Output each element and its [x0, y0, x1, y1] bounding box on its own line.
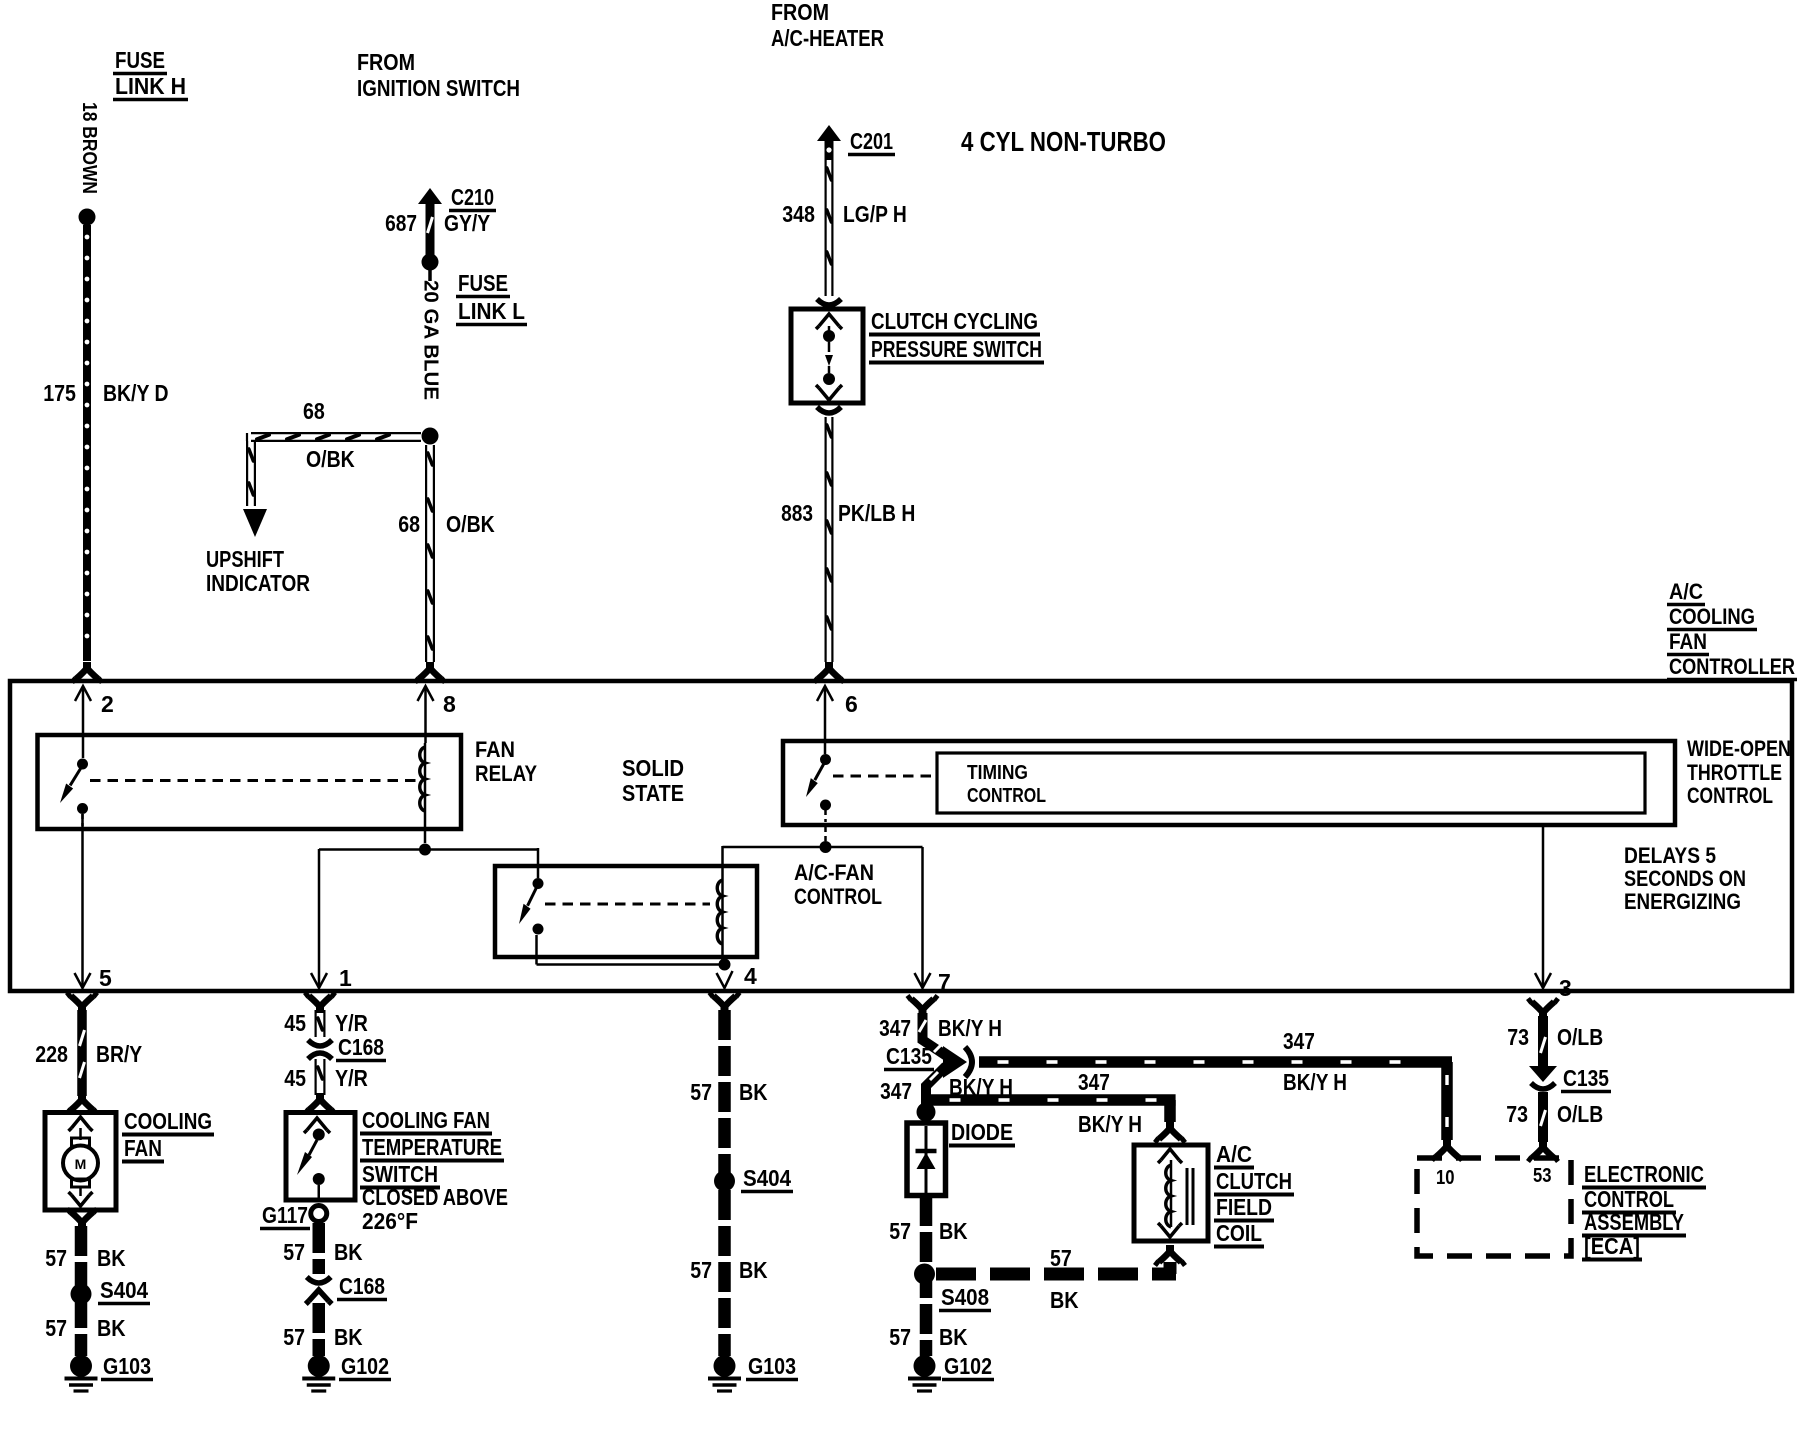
svg-text:FAN: FAN	[1669, 629, 1707, 654]
svg-text:TIMING: TIMING	[967, 762, 1028, 784]
label 57 BK temp switch upper	[283, 1239, 363, 1265]
label 883 PK/LB H	[781, 500, 915, 526]
svg-text:A/C: A/C	[1669, 579, 1703, 604]
label 57 BK (coil ground run)	[1050, 1245, 1079, 1313]
wire 228 BR/Y	[67, 1010, 97, 1114]
wire 57 BK diode to ground	[920, 1196, 933, 1356]
svg-text:SECONDS ON: SECONDS ON	[1624, 866, 1746, 891]
label 348 LG/P H	[782, 201, 907, 227]
a/c fan relay switch	[519, 878, 544, 935]
svg-text:53: 53	[1533, 1165, 1552, 1187]
svg-text:6: 6	[845, 691, 858, 717]
connector below cooling fan	[67, 1209, 97, 1230]
a/c fan control relay box	[495, 866, 757, 957]
svg-text:C135: C135	[1563, 1065, 1609, 1091]
svg-text:45: 45	[284, 1010, 306, 1036]
fan relay box	[38, 735, 462, 829]
svg-text:INDICATOR: INDICATOR	[206, 570, 310, 596]
connector C168 lower	[306, 1273, 387, 1304]
label 73 O/LB lower	[1506, 1101, 1603, 1127]
svg-text:57: 57	[1050, 1245, 1072, 1271]
label DIODE	[949, 1119, 1015, 1146]
svg-text:BK: BK	[97, 1315, 126, 1341]
pin 8	[418, 686, 457, 743]
svg-text:COOLING: COOLING	[124, 1108, 212, 1134]
a/c fan relay coil	[717, 864, 722, 962]
svg-text:BK: BK	[334, 1239, 363, 1265]
svg-text:73: 73	[1507, 1024, 1529, 1050]
svg-text:347: 347	[880, 1078, 912, 1104]
svg-text:LINK H: LINK H	[115, 73, 186, 99]
pin 4	[717, 963, 758, 989]
svg-text:PK/LB H: PK/LB H	[838, 500, 915, 526]
svg-text:BK: BK	[739, 1257, 768, 1283]
svg-text:687: 687	[385, 210, 417, 236]
label SOLID STATE	[622, 755, 684, 806]
svg-text:20 GA BLUE: 20 GA BLUE	[420, 280, 442, 400]
label COOLING FAN TEMPERATURE SWITCH CLOSED ABOVE 226°F	[360, 1107, 508, 1234]
label WIDE-OPEN THROTTLE CONTROL	[1687, 736, 1791, 808]
cooling fan temperature switch box	[286, 1113, 355, 1201]
svg-text:S404: S404	[100, 1277, 148, 1303]
svg-text:A/C-HEATER: A/C-HEATER	[771, 25, 884, 51]
connector pin 7 output	[908, 996, 938, 1017]
label 347 BK/Y H (coil run)	[1078, 1069, 1142, 1137]
svg-text:68: 68	[303, 398, 325, 424]
pin 5	[75, 814, 113, 991]
label CLUTCH CYCLING PRESSURE SWITCH	[869, 308, 1044, 363]
timing control box	[937, 753, 1645, 813]
ground G102 (temp switch)	[302, 1353, 391, 1391]
svg-text:57: 57	[690, 1079, 712, 1105]
label 45 Y/R lower	[284, 1065, 368, 1091]
svg-text:FROM: FROM	[357, 49, 415, 75]
svg-text:O/LB: O/LB	[1557, 1101, 1603, 1127]
svg-text:883: 883	[781, 500, 813, 526]
svg-text:C168: C168	[339, 1273, 385, 1299]
label 687 GY/Y	[385, 210, 490, 236]
label A/C-FAN CONTROL	[794, 860, 882, 909]
a/c clutch field coil	[1158, 1149, 1193, 1237]
pin 53 label	[1533, 1165, 1552, 1187]
svg-text:UPSHIFT: UPSHIFT	[206, 546, 284, 572]
wire 57 BK to clutch field coil	[936, 1245, 1185, 1274]
svg-text:BR/Y: BR/Y	[96, 1041, 142, 1067]
svg-text:8: 8	[443, 691, 456, 717]
pin 6	[817, 686, 858, 754]
title 4 CYL NON-TURBO	[961, 126, 1166, 157]
label A/C COOLING FAN CONTROLLER	[1667, 579, 1797, 680]
svg-text:175: 175	[43, 380, 76, 406]
label A/C CLUTCH FIELD COIL	[1214, 1141, 1294, 1247]
label 45 Y/R upper	[284, 1010, 368, 1036]
pressure switch contacts	[816, 314, 842, 400]
connector C168 upper	[308, 1034, 386, 1061]
label 175 BK/Y D	[43, 380, 168, 406]
svg-text:FROM: FROM	[771, 0, 829, 25]
dashed wire wot switch to node	[824, 827, 827, 843]
svg-text:228: 228	[35, 1041, 68, 1067]
svg-text:CLUTCH CYCLING: CLUTCH CYCLING	[871, 308, 1038, 334]
svg-text:THROTTLE: THROTTLE	[1687, 760, 1782, 785]
junction dot node 68	[422, 428, 439, 445]
wire coil junction to pin 1 and a/c-fan switch	[319, 848, 538, 878]
svg-text:C168: C168	[338, 1034, 384, 1060]
svg-text:BK: BK	[939, 1324, 968, 1350]
temperature switch contacts	[297, 1118, 330, 1200]
svg-text:BK: BK	[334, 1324, 363, 1350]
svg-text:DELAYS 5: DELAYS 5	[1624, 843, 1716, 868]
wire 57 BK cooling fan ground leg	[75, 1226, 88, 1356]
svg-text:57: 57	[45, 1315, 67, 1341]
svg-text:SOLID: SOLID	[622, 755, 684, 781]
svg-text:G103: G103	[103, 1353, 151, 1379]
svg-text:COIL: COIL	[1216, 1220, 1262, 1246]
label 57 BK pin4 upper	[690, 1079, 768, 1105]
cooling fan motor	[63, 1117, 98, 1206]
svg-text:BK/Y H: BK/Y H	[1078, 1111, 1142, 1137]
svg-text:Y/R: Y/R	[335, 1010, 368, 1036]
junction dot diode node	[917, 1103, 936, 1122]
wire 57 BK temp switch upper	[313, 1223, 326, 1274]
wire 347 BK/Y H to clutch field coil	[931, 1100, 1185, 1143]
svg-text:ELECTRONIC: ELECTRONIC	[1584, 1161, 1704, 1187]
svg-text:10: 10	[1436, 1167, 1455, 1189]
junction dot pin 4 node	[719, 959, 731, 971]
wire 68 O/BK horizontal to upshift indicator	[247, 433, 421, 506]
pin 2	[75, 686, 114, 758]
fan relay actuating dashed link	[90, 779, 417, 782]
ground G103	[65, 1353, 154, 1391]
svg-text:LINK L: LINK L	[458, 298, 525, 324]
wot relay switch	[806, 754, 831, 822]
junction dot fan relay coil to pin 1	[419, 844, 431, 856]
wire 175 BK/Y D (fuse link H)	[72, 225, 102, 683]
svg-text:BK: BK	[97, 1245, 126, 1271]
connector pin 1 output	[305, 993, 335, 1014]
label FUSE LINK H	[113, 47, 188, 100]
svg-text:1: 1	[339, 965, 352, 991]
label FROM A/C-HEATER	[771, 0, 884, 51]
connector C210 arrow	[418, 188, 442, 255]
connector C201 arrow	[817, 125, 841, 160]
wire 73 O/LB lower	[1528, 1092, 1558, 1162]
label 68 O/BK (vertical run)	[398, 511, 495, 537]
svg-text:G102: G102	[944, 1353, 992, 1379]
fan relay switch	[60, 759, 88, 827]
diode box	[907, 1123, 946, 1196]
wire 57 BK temp switch lower	[313, 1303, 326, 1356]
junction dot wot output node	[820, 841, 832, 853]
svg-text:FUSE: FUSE	[458, 270, 508, 296]
ground G102 (diode leg)	[908, 1353, 994, 1391]
label 347 BK/Y H (lower diagonal)	[880, 1074, 1013, 1104]
svg-text:57: 57	[283, 1324, 305, 1350]
svg-text:O/BK: O/BK	[446, 511, 495, 537]
label DELAYS 5 SECONDS ON ENERGIZING	[1624, 843, 1746, 914]
A/C cooling fan controller enclosure box	[10, 681, 1792, 991]
splice S404 (pin 4 leg)	[714, 1165, 793, 1192]
svg-text:TEMPERATURE: TEMPERATURE	[362, 1134, 502, 1160]
wire 347 BK/Y H lower diagonal	[926, 1066, 946, 1120]
svg-text:CLUTCH: CLUTCH	[1216, 1168, 1292, 1194]
connector pin 5 output	[67, 993, 97, 1014]
svg-text:O/BK: O/BK	[306, 446, 355, 472]
label UPSHIFT INDICATOR	[206, 546, 310, 596]
svg-text:347: 347	[879, 1015, 911, 1041]
svg-text:45: 45	[284, 1065, 306, 1091]
svg-text:C210: C210	[451, 184, 494, 210]
wire label 18 BROWN (vertical)	[78, 102, 100, 194]
wire 20 GA BLUE (vertical label)	[420, 270, 442, 400]
label 68 O/BK (horizontal run)	[303, 398, 355, 472]
wire 45 Y/R lower	[305, 1059, 335, 1114]
pin 1	[311, 849, 352, 991]
label 57 BK diode leg lower	[889, 1324, 968, 1350]
svg-text:COOLING: COOLING	[1669, 604, 1755, 629]
pin 10 label	[1436, 1167, 1455, 1189]
svg-text:ASSEMBLY: ASSEMBLY	[1584, 1209, 1684, 1235]
ground G103 (pin 4 leg)	[708, 1353, 798, 1391]
wire node to a/c-fan coil and pin 7	[723, 846, 923, 866]
svg-text:68: 68	[398, 511, 420, 537]
svg-text:S408: S408	[941, 1284, 989, 1310]
label 57 BK pin4 lower	[690, 1257, 768, 1283]
wide-open throttle control relay box	[783, 741, 1675, 825]
svg-text:BK: BK	[939, 1218, 968, 1244]
wire 57 BK pin 4 leg	[718, 1010, 731, 1356]
fan relay coil	[420, 743, 425, 843]
svg-text:BK/Y H: BK/Y H	[938, 1015, 1002, 1041]
svg-text:CLOSED ABOVE: CLOSED ABOVE	[362, 1184, 508, 1210]
svg-text:CONTROL: CONTROL	[1687, 783, 1773, 808]
svg-text:IGNITION SWITCH: IGNITION SWITCH	[357, 75, 520, 101]
svg-text:DIODE: DIODE	[951, 1119, 1013, 1145]
svg-text:FUSE: FUSE	[115, 47, 165, 73]
svg-text:G103: G103	[748, 1353, 796, 1379]
label 73 O/LB upper	[1507, 1024, 1603, 1050]
upshift indicator arrow	[243, 509, 267, 537]
label 57 BK (upper)	[45, 1245, 126, 1271]
svg-text:A/C-FAN: A/C-FAN	[794, 860, 874, 885]
svg-text:CONTROLLER: CONTROLLER	[1669, 654, 1795, 679]
svg-text:BK/Y H: BK/Y H	[1283, 1069, 1347, 1095]
svg-text:G117: G117	[262, 1202, 308, 1228]
connector pin 3 output	[1528, 999, 1558, 1020]
svg-text:FIELD: FIELD	[1216, 1194, 1272, 1220]
svg-text:PRESSURE SWITCH: PRESSURE SWITCH	[871, 336, 1042, 362]
label 347 BK/Y H (at connector)	[879, 1015, 1002, 1041]
svg-text:LG/P H: LG/P H	[843, 201, 907, 227]
cooling fan motor box	[45, 1113, 116, 1211]
svg-text:G102: G102	[341, 1353, 389, 1379]
svg-text:7: 7	[938, 969, 951, 995]
svg-text:348: 348	[782, 201, 815, 227]
svg-text:57: 57	[889, 1218, 911, 1244]
svg-text:57: 57	[889, 1324, 911, 1350]
label C201	[848, 128, 895, 155]
label FUSE LINK L	[456, 270, 527, 325]
wire 347 BK/Y H upper diagonal	[919, 1013, 948, 1057]
svg-text:CONTROL: CONTROL	[967, 785, 1046, 807]
svg-text:5: 5	[99, 965, 112, 991]
connector C135 (ECA feed)	[1529, 1065, 1611, 1092]
svg-text:WIDE-OPEN: WIDE-OPEN	[1687, 736, 1791, 761]
diode	[916, 1126, 937, 1193]
label TIMING CONTROL	[967, 762, 1046, 807]
splice dot fuse link L	[422, 254, 439, 271]
svg-text:ENERGIZING: ENERGIZING	[1624, 889, 1741, 914]
wot relay dashed link	[833, 775, 935, 778]
label 57 BK diode leg upper	[889, 1218, 968, 1244]
wire 73 O/LB upper	[1541, 1016, 1546, 1066]
svg-text:C201: C201	[850, 128, 893, 154]
splice S408	[914, 1264, 991, 1311]
label 228 BR/Y	[35, 1041, 142, 1067]
splice S404	[71, 1277, 151, 1305]
svg-text:STATE: STATE	[622, 780, 684, 806]
svg-text:[ECA]: [ECA]	[1584, 1233, 1640, 1259]
svg-text:FAN: FAN	[124, 1135, 162, 1161]
label 57 BK (lower)	[45, 1315, 126, 1341]
svg-text:3: 3	[1559, 975, 1572, 1001]
svg-text:226°F: 226°F	[362, 1208, 418, 1234]
svg-text:Y/R: Y/R	[335, 1065, 368, 1091]
svg-text:4 CYL NON-TURBO: 4 CYL NON-TURBO	[961, 126, 1166, 157]
label FAN RELAY	[475, 737, 537, 786]
wire a/c fan switch output	[537, 935, 721, 965]
wire 348 LG/P H	[817, 160, 841, 305]
svg-text:18 BROWN: 18 BROWN	[78, 102, 100, 194]
svg-text:FAN: FAN	[475, 737, 515, 762]
svg-text:BK/Y D: BK/Y D	[103, 380, 169, 406]
clutch cycling pressure switch box	[791, 309, 863, 403]
wire 883 PK/LB H	[814, 407, 844, 683]
svg-text:2: 2	[101, 691, 114, 717]
svg-text:4: 4	[744, 963, 757, 989]
wire 45 Y/R upper	[316, 1010, 325, 1037]
svg-text:347: 347	[1078, 1069, 1110, 1095]
svg-text:S404: S404	[743, 1165, 791, 1191]
svg-text:57: 57	[690, 1257, 712, 1283]
connector pin 4 output	[710, 993, 740, 1014]
svg-text:C135: C135	[886, 1043, 932, 1069]
svg-text:347: 347	[1283, 1028, 1315, 1054]
label 57 BK temp switch lower	[283, 1324, 363, 1350]
ground connection G117	[260, 1202, 327, 1229]
svg-text:57: 57	[283, 1239, 305, 1265]
label ELECTRONIC CONTROL ASSEMBLY (ECA)	[1582, 1161, 1706, 1260]
wire 347 BK/Y H to ECA pin 10	[979, 1062, 1462, 1161]
pin 7	[915, 847, 951, 995]
label FROM IGNITION SWITCH	[357, 49, 520, 101]
svg-text:RELAY: RELAY	[475, 761, 537, 786]
svg-text:57: 57	[45, 1245, 67, 1271]
wire 68 O/BK vertical to pin 8	[415, 445, 445, 683]
svg-text:O/LB: O/LB	[1557, 1024, 1603, 1050]
label C210	[449, 184, 496, 211]
splice dot top of circuit 175	[79, 209, 96, 226]
svg-text:M: M	[75, 1156, 87, 1172]
label COOLING FAN	[122, 1108, 214, 1162]
svg-text:A/C: A/C	[1216, 1141, 1252, 1167]
svg-text:73: 73	[1506, 1101, 1528, 1127]
pin 3	[1535, 825, 1572, 1001]
electronic control assembly box	[1417, 1158, 1571, 1256]
svg-text:BK: BK	[1050, 1287, 1079, 1313]
label 347 BK/Y H (ECA run)	[1283, 1028, 1347, 1095]
a/c clutch field coil box	[1134, 1145, 1208, 1241]
svg-text:BK: BK	[739, 1079, 768, 1105]
a/c fan relay dashed link	[545, 903, 710, 906]
svg-text:GY/Y: GY/Y	[444, 210, 490, 236]
svg-text:COOLING FAN: COOLING FAN	[362, 1107, 490, 1133]
svg-text:CONTROL: CONTROL	[794, 884, 882, 909]
connector C135 (clutch feed)	[884, 1043, 972, 1078]
